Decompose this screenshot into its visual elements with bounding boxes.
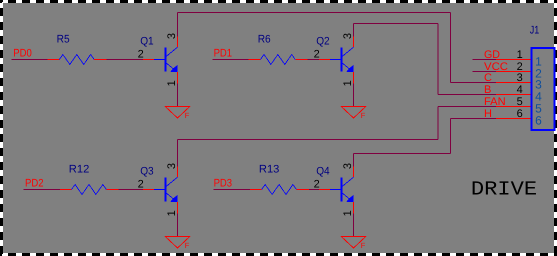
wire vertical up to FAN row <box>437 107 439 140</box>
J1 pin 3 <box>496 82 531 84</box>
svg-text:1: 1 <box>342 80 354 86</box>
wire Q1 collector riser <box>177 13 179 37</box>
svg-text:R12: R12 <box>69 164 90 176</box>
Q2 pin 1 (emitter) <box>353 72 355 83</box>
svg-text:PD1: PD1 <box>214 48 233 60</box>
svg-text:F: F <box>185 241 190 250</box>
transistor Q4 <box>330 177 354 202</box>
resistor R12 left lead <box>60 189 72 191</box>
svg-text:3: 3 <box>342 163 354 169</box>
Q1 pin 2 (base) <box>143 59 154 61</box>
svg-text:J1: J1 <box>530 24 540 36</box>
wire vertical down to C row <box>450 13 452 83</box>
transistor Q3 <box>154 177 178 202</box>
Q1 pin 3 (collector) <box>177 36 179 47</box>
svg-text:PD2: PD2 <box>25 178 44 190</box>
transistor Q1 <box>154 47 178 72</box>
svg-text:2: 2 <box>138 179 144 191</box>
Q4 pin 2 (base) <box>319 189 330 191</box>
Q4 pin 1 (emitter) <box>353 202 355 213</box>
ground at Q1 emitter <box>165 107 190 119</box>
resistor R12 <box>72 185 107 195</box>
resistor R12 right lead <box>106 189 118 191</box>
wire Q1 emitter to ground <box>177 84 179 107</box>
svg-text:Q3: Q3 <box>140 166 154 178</box>
wire PD1 net to R6 <box>213 59 249 61</box>
svg-text:R6: R6 <box>258 34 271 46</box>
wire Q1 top horizontal to node C column <box>178 12 451 14</box>
connector J1 body <box>532 48 555 130</box>
svg-text:1: 1 <box>342 210 354 216</box>
svg-text:FAN: FAN <box>484 96 506 108</box>
wire R6 to Q2 base <box>308 59 319 61</box>
resistor R5 right lead <box>94 59 106 61</box>
svg-text:5: 5 <box>517 96 523 108</box>
svg-text:1: 1 <box>166 210 178 216</box>
svg-text:Q2: Q2 <box>316 36 330 48</box>
Q1 pin 1 (emitter) <box>177 72 179 83</box>
svg-text:C: C <box>484 72 492 84</box>
wire R13 to Q4 base <box>309 189 319 191</box>
svg-text:R13: R13 <box>259 164 280 176</box>
svg-text:2: 2 <box>138 49 144 61</box>
wire Q4 collector riser <box>353 154 355 167</box>
svg-text:4: 4 <box>517 84 523 96</box>
svg-text:F: F <box>185 111 190 120</box>
J1 pin 4 <box>496 94 531 96</box>
wire R12 to Q3 base <box>119 189 143 191</box>
J1 pin 5 <box>496 106 531 108</box>
wire C row horizontal to connector <box>451 82 497 84</box>
svg-text:DRIVE: DRIVE <box>471 178 537 201</box>
svg-text:1: 1 <box>166 80 178 86</box>
ground at Q2 emitter <box>341 107 366 119</box>
svg-text:GD: GD <box>484 49 500 61</box>
wire Q3 emitter to ground <box>177 214 179 237</box>
wire Q4 emitter to ground <box>353 214 355 237</box>
svg-text:6: 6 <box>517 108 523 120</box>
svg-text:3: 3 <box>166 33 178 39</box>
svg-text:2: 2 <box>314 49 320 61</box>
wire Q2 top horizontal to node B column <box>354 23 439 25</box>
Q2 pin 2 (base) <box>319 59 330 61</box>
wire PD3 net to R13 <box>213 189 250 191</box>
ground at Q4 emitter <box>341 237 366 249</box>
wire PD2 net to R12 <box>24 189 60 191</box>
wire FAN row horizontal to connector <box>438 106 496 108</box>
wire Q4 horizontal to H column <box>354 153 451 155</box>
wire Q2 emitter to ground <box>353 84 355 107</box>
resistor R13 <box>262 185 297 195</box>
svg-text:3: 3 <box>342 33 354 39</box>
wire GD stub <box>472 59 496 61</box>
transistor Q2 <box>330 47 354 72</box>
ground at Q3 emitter <box>165 237 190 249</box>
resistor R5 <box>59 55 94 65</box>
wire vertical down to B row <box>437 24 439 95</box>
Q4 pin 3 (collector) <box>353 166 355 177</box>
Q3 pin 2 (base) <box>143 189 154 191</box>
J1 pin 1 <box>496 59 531 61</box>
wire B row horizontal to connector <box>438 94 496 96</box>
resistor R13 right lead <box>297 189 309 191</box>
wire VCC stub <box>472 71 496 73</box>
svg-text:1: 1 <box>517 49 523 61</box>
svg-text:F: F <box>361 241 366 250</box>
J1 pin 2 <box>496 71 531 73</box>
wire PD0 net to R5 <box>12 59 48 61</box>
svg-text:PD3: PD3 <box>214 178 233 190</box>
svg-text:Q1: Q1 <box>140 36 154 48</box>
wire H row horizontal to connector <box>451 118 497 120</box>
wire vertical up to H row <box>450 119 452 154</box>
svg-text:3: 3 <box>517 72 523 84</box>
Q2 pin 3 (collector) <box>353 36 355 47</box>
resistor R5 left lead <box>48 59 60 61</box>
resistor R6 <box>260 55 295 65</box>
svg-text:6: 6 <box>535 114 542 128</box>
resistor R13 left lead <box>250 189 262 191</box>
Q3 pin 1 (emitter) <box>177 202 179 213</box>
resistor R6 left lead <box>249 59 261 61</box>
svg-text:B: B <box>484 84 491 96</box>
svg-text:R5: R5 <box>57 34 70 46</box>
svg-text:H: H <box>484 108 492 120</box>
Q3 pin 3 (collector) <box>177 166 179 177</box>
svg-text:PD0: PD0 <box>13 48 32 60</box>
svg-text:Q4: Q4 <box>316 166 330 178</box>
wire Q3 horizontal to FAN column <box>178 139 439 141</box>
J1 pin 6 <box>496 118 531 120</box>
wire R5 to Q1 base <box>107 59 144 61</box>
svg-text:3: 3 <box>166 163 178 169</box>
svg-text:2: 2 <box>314 179 320 191</box>
wire Q2 collector riser <box>353 24 355 37</box>
wire Q3 collector riser <box>177 140 179 167</box>
resistor R6 right lead <box>295 59 307 61</box>
svg-text:F: F <box>361 111 366 120</box>
